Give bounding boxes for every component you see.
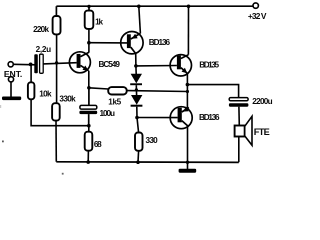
node +V rail	[56, 5, 253, 7]
wire output to cap	[187, 85, 238, 98]
resistor 330k	[52, 94, 76, 161]
node base junction dot	[55, 61, 58, 64]
node input junction dot	[29, 63, 33, 67]
svg-text:BD135: BD135	[199, 60, 219, 69]
svg-text:FTE: FTE	[254, 127, 270, 137]
svg-text:330k: 330k	[59, 94, 76, 103]
svg-text:+32 V: +32 V	[248, 11, 267, 21]
svg-text:10k: 10k	[39, 90, 52, 99]
diode D1	[130, 66, 142, 85]
node diode-top junction	[134, 64, 138, 68]
capacitor 2200u	[229, 97, 273, 126]
node 100u bottom junction	[87, 124, 91, 128]
terminal input ground	[8, 77, 13, 97]
resistor 220k	[33, 6, 60, 103]
wire feedback bottom	[31, 99, 89, 125]
svg-text:BC549: BC549	[99, 60, 121, 69]
speaker FTE	[235, 116, 270, 162]
ground symbol input	[2, 97, 21, 101]
svg-text:68: 68	[94, 140, 102, 149]
svg-text:330: 330	[146, 136, 159, 145]
capacitor 100u	[79, 88, 115, 126]
resistor 330	[135, 118, 158, 163]
transistor Q2 BD136 (driver, PNP)	[121, 5, 171, 66]
capacitor 2,2u	[34, 45, 76, 73]
resistor 1k	[85, 5, 104, 43]
wire base BD135	[136, 65, 177, 67]
diode D2	[131, 85, 143, 117]
resistor 68	[85, 126, 102, 163]
terminal input ENT	[4, 62, 22, 79]
transistor Q1 BC549 (NPN)	[69, 43, 120, 88]
svg-text:2200u: 2200u	[252, 97, 272, 106]
svg-text:1k: 1k	[95, 17, 103, 26]
wire base BD136 bottom	[137, 117, 178, 119]
node ground rail	[56, 160, 239, 164]
svg-text:2,2u: 2,2u	[36, 45, 52, 54]
scan noise specks	[0, 105, 64, 175]
svg-text:BD136: BD136	[149, 38, 171, 47]
node diode-bottom junction	[135, 116, 139, 120]
transistor Q4 BD136 (output, PNP)	[170, 107, 220, 169]
node emitter junction dot	[87, 86, 91, 90]
resistor 1k5	[89, 87, 187, 106]
wire input	[13, 63, 35, 66]
ground symbol main	[179, 169, 197, 173]
svg-text:1k5: 1k5	[108, 98, 121, 107]
node collector junction dot	[87, 41, 91, 45]
svg-text:BD136: BD136	[199, 113, 220, 122]
svg-text:100u: 100u	[100, 109, 116, 118]
svg-text:220k: 220k	[33, 25, 49, 34]
resistor 10k	[28, 64, 52, 99]
wire base BD136 top	[89, 42, 127, 44]
node output junction (to cap)	[186, 83, 190, 87]
transistor Q3 BD135 (NPN)	[170, 5, 219, 108]
node diode-mid junction	[135, 88, 138, 91]
terminal +32V	[248, 3, 267, 21]
node feedback junction	[186, 90, 189, 93]
